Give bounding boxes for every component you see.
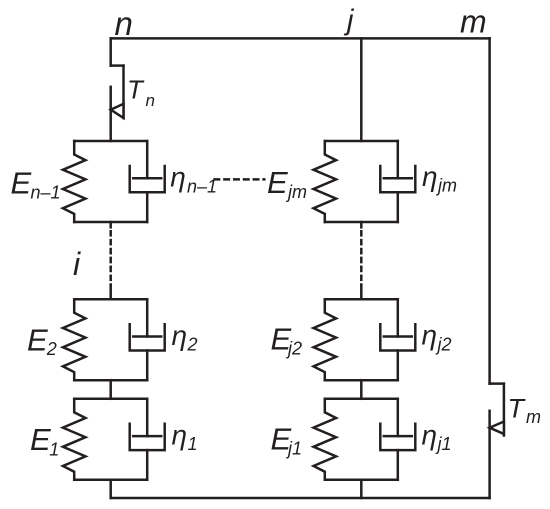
friction slider T_n: upper rod [109, 38, 112, 65]
wire: solid stub below row-1 element (right) [360, 222, 363, 227]
friction slider T_m: right rod [503, 384, 506, 436]
wire: node m drop to slider T_m [488, 38, 491, 383]
wire: link between row-2 and row-3 elements (left) [109, 380, 112, 399]
dashpot eta_1: cylinder cup [130, 424, 165, 450]
dashpot eta_j2: cylinder cup [380, 324, 415, 350]
dashpot eta_j1: lower rod [397, 450, 400, 480]
svg-text:1: 1 [188, 434, 198, 454]
svg-text:i: i [73, 246, 81, 282]
svg-text:E: E [27, 322, 48, 357]
svg-text:j2: j2 [285, 339, 302, 359]
svg-text:T: T [127, 74, 145, 104]
dashpot eta_j2: lower rod [397, 351, 400, 381]
Kelvin element E_2 / eta_2: bottom bar [74, 379, 147, 382]
friction slider T_m: lower rod [488, 411, 491, 498]
wire: stub from row-3 element to bottom bus (left) [109, 480, 112, 498]
dashpot eta_1: piston rod [146, 399, 149, 436]
dashpot eta_2: piston plate [133, 335, 161, 338]
svg-text:E: E [267, 165, 288, 200]
svg-text:j1: j1 [285, 439, 302, 459]
spring E_n-1 [63, 141, 86, 222]
Kelvin element E_1 / eta_1: top bar [74, 398, 147, 401]
dashpot eta_jm: piston plate [384, 177, 412, 180]
wire: solid stub below row-1 element (left) [109, 222, 112, 227]
dashpot eta_n-1: piston rod [146, 141, 149, 178]
svg-text:m: m [526, 407, 541, 427]
Kelvin element E_j1 / eta_j1: top bar [325, 398, 398, 401]
svg-text:j2: j2 [435, 334, 452, 354]
Kelvin element E_n-1 / eta_n-1: bottom bar [74, 221, 147, 224]
Kelvin element E_j2 / eta_j2: top bar [325, 298, 398, 301]
dashpot eta_jm: cylinder cup [380, 166, 415, 192]
Kelvin element E_2 / eta_2: top bar [74, 298, 147, 301]
svg-text:η: η [172, 320, 188, 351]
svg-text:1: 1 [49, 440, 59, 460]
svg-text:η: η [170, 162, 186, 193]
dashpot eta_1: lower rod [146, 450, 149, 480]
friction slider T_m: jog [490, 382, 504, 385]
svg-text:2: 2 [46, 339, 57, 359]
svg-text:jm: jm [285, 182, 307, 202]
friction slider T_m: contact triangle [490, 422, 504, 435]
wire: bottom bus [111, 497, 490, 500]
svg-text:jm: jm [435, 176, 457, 196]
spring E_jm [314, 141, 337, 222]
svg-text:η: η [422, 319, 438, 350]
spring E_j1 [314, 399, 337, 480]
spring E_1 [63, 399, 86, 480]
wire: top bus from node n through j to m [111, 37, 490, 40]
dashpot eta_2: cylinder cup [130, 324, 165, 350]
svg-text:n: n [146, 91, 155, 110]
wire: solid stub above row-2 element (left) [109, 285, 112, 300]
friction slider T_n: lower rod [109, 87, 112, 141]
Kelvin element E_1 / eta_1: bottom bar [74, 479, 147, 482]
wire: dashed continuation of left chain [109, 231, 112, 284]
dashpot eta_jm: piston rod [397, 141, 400, 178]
svg-text:E: E [11, 166, 32, 201]
dashpot eta_j2: piston plate [384, 335, 412, 338]
dashpot eta_j1: cylinder cup [380, 424, 415, 450]
friction slider T_n: right rod [122, 66, 125, 118]
Kelvin element E_n-1 / eta_n-1: top bar [74, 140, 147, 143]
dashpot eta_2: lower rod [146, 351, 149, 381]
wire: dashed link between eta_n-1 and E_jm [215, 178, 265, 181]
Kelvin element E_jm / eta_jm: top bar [325, 140, 398, 143]
dashpot eta_j1: piston plate [384, 435, 412, 438]
dashpot eta_jm: lower rod [397, 192, 400, 222]
svg-text:j: j [343, 5, 355, 37]
dashpot eta_2: piston rod [146, 299, 149, 336]
dashpot eta_j1: piston rod [397, 399, 400, 436]
svg-text:j1: j1 [435, 434, 452, 454]
svg-text:n–1: n–1 [31, 183, 61, 203]
wire: solid stub above row-2 element (right) [360, 285, 363, 300]
dashpot eta_n-1: cylinder cup [130, 166, 165, 192]
friction slider T_n: contact triangle [111, 104, 124, 118]
svg-text:m: m [460, 4, 487, 40]
spring E_j2 [314, 299, 337, 380]
wire: stub from row-3 element to bottom bus (right) [360, 480, 363, 498]
wire: link between row-2 and row-3 elements (right) [360, 380, 363, 399]
Kelvin element E_j2 / eta_j2: bottom bar [325, 379, 398, 382]
svg-text:T: T [508, 393, 527, 423]
svg-text:η: η [422, 419, 438, 450]
friction slider T_n: jog [111, 64, 124, 67]
Kelvin element E_j1 / eta_j1: bottom bar [325, 479, 398, 482]
dashpot eta_j2: piston rod [397, 299, 400, 336]
svg-text:η: η [172, 420, 188, 451]
svg-text:2: 2 [187, 334, 198, 354]
spring E_2 [63, 299, 86, 380]
svg-text:n–1: n–1 [187, 176, 217, 196]
svg-text:E: E [30, 422, 51, 457]
Kelvin element E_jm / eta_jm: bottom bar [325, 221, 398, 224]
svg-text:η: η [422, 161, 438, 192]
svg-text:n: n [115, 5, 133, 42]
dashpot eta_n-1: lower rod [146, 192, 149, 222]
dashpot eta_n-1: piston plate [133, 177, 161, 180]
wire: dashed continuation of right chain [360, 231, 363, 284]
wire: node j drop to element E_jm [360, 38, 363, 141]
dashpot eta_1: piston plate [133, 435, 161, 438]
